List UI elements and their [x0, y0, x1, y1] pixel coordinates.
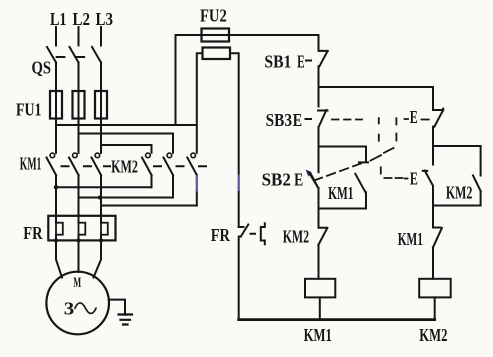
- watermark blue tint strokes: [197, 176, 239, 191]
- wire FU2 upper to SB1 branch: [229, 34, 319, 36]
- linkage vertical dash line right: [395, 118, 397, 140]
- fuse FU2 lower: [203, 48, 231, 60]
- contactor KM1 main contact 3: [95, 153, 100, 158]
- svg-text:FR: FR: [23, 223, 43, 243]
- wire bottom rail: [239, 318, 435, 321]
- svg-text:KM1: KM1: [304, 325, 332, 345]
- svg-text:E: E: [293, 110, 302, 130]
- wire FR to motor mid: [78, 240, 80, 272]
- node E horizontal: [433, 205, 481, 207]
- wire FR to motor right: [94, 240, 102, 277]
- wire phase2 below FU1: [78, 119, 80, 153]
- junction dot crossing phase3: [98, 196, 102, 200]
- wire FU2 lower right stub down control rail: [230, 53, 239, 227]
- wire KM2 output 1 to phase1: [56, 186, 152, 188]
- switch QS pole 3: [92, 47, 101, 91]
- wire FU2 lower left stub: [197, 53, 203, 125]
- FR heater 1: [56, 223, 63, 235]
- wire L1 drop: [55, 27, 57, 46]
- svg-text:KM2: KM2: [111, 156, 138, 176]
- contactor KM1 main contact 2: [73, 153, 78, 158]
- svg-text:KM2: KM2: [419, 325, 447, 345]
- svg-text:FU1: FU1: [16, 99, 41, 119]
- wire KM2 output 3 to phase3: [101, 205, 197, 207]
- interlock KM2 NC contact left branch: [318, 209, 327, 279]
- SB3 linkage dashes horizontal: [332, 119, 362, 121]
- fuse FU1 pole 3: [95, 91, 107, 119]
- switch QS pole 2: [70, 47, 79, 91]
- wire L2 drop: [78, 27, 80, 46]
- svg-text:SB1: SB1: [264, 52, 291, 72]
- FR heater 3: [101, 223, 108, 235]
- svg-text:KM1: KM1: [20, 154, 42, 174]
- contactor KM2 main contact 2: [167, 153, 172, 158]
- fuse FU2 upper: [202, 29, 230, 42]
- pushbutton SB1 NC contact: [319, 35, 328, 87]
- svg-text:FR: FR: [211, 225, 231, 245]
- motor M circle: [46, 272, 109, 335]
- svg-text:FU2: FU2: [200, 5, 227, 25]
- FR phase wire segments through box: [56, 216, 101, 241]
- svg-text:E: E: [294, 170, 303, 190]
- pushbutton SB3 NC contact right: [433, 87, 443, 146]
- pushbutton SB3 NO contact left: [318, 87, 328, 147]
- node B horizontal: [319, 146, 367, 148]
- SB3 linkage dash before right E: [405, 118, 429, 121]
- pushbutton SB2 NO contact right: [423, 146, 433, 206]
- wire FR to motor left: [56, 240, 62, 277]
- svg-text:L3: L3: [96, 9, 114, 29]
- svg-text:QS: QS: [32, 58, 52, 78]
- interlock KM1 NC contact right branch: [433, 206, 442, 279]
- svg-text:KM2: KM2: [446, 183, 473, 203]
- svg-text:E: E: [410, 107, 418, 127]
- node D horizontal: [319, 208, 367, 210]
- svg-text:E: E: [297, 52, 305, 72]
- wire phase3 below FU1: [100, 119, 102, 153]
- svg-text:KM2: KM2: [283, 226, 309, 246]
- junction dot phase1 output: [54, 185, 58, 189]
- wire tap phase2 to KM2 pole2: [79, 134, 174, 153]
- linkage diagonal dashes to KM1 aux: [371, 148, 394, 161]
- ground wire: [109, 300, 125, 315]
- pushbutton SB2 NC contact left with arrow: [310, 147, 318, 209]
- fuse FU1 pole 1: [50, 91, 62, 119]
- svg-text:E: E: [410, 169, 418, 189]
- thermal relay FR box: [48, 216, 115, 241]
- coil KM1: [305, 279, 335, 298]
- junction dots FR bottom: [54, 214, 103, 242]
- linkage vertical dash line left: [379, 118, 381, 173]
- svg-text:SB2: SB2: [262, 170, 291, 190]
- svg-text:M: M: [73, 275, 81, 291]
- FR heater 2: [79, 223, 86, 235]
- svg-text:L1: L1: [50, 9, 67, 29]
- wire KM2 output 2 to phase2: [79, 197, 174, 199]
- wire L3 drop: [100, 27, 102, 46]
- FR paddle symbol: [251, 223, 265, 244]
- coil KM2: [419, 279, 451, 298]
- fuse FU1 pole 2: [73, 91, 85, 119]
- node C horizontal: [433, 145, 481, 147]
- svg-text:SB3: SB3: [266, 110, 292, 130]
- contactor KM2 aux latch contact: [473, 146, 481, 206]
- svg-text:3: 3: [64, 298, 75, 318]
- contactor KM1 main contact 1: [50, 153, 55, 158]
- svg-text:L2: L2: [73, 9, 91, 29]
- QS linkage dashes: [57, 56, 84, 58]
- KM1-KM2 linkage dashes: [62, 165, 207, 167]
- switch QS pole 1: [47, 47, 56, 91]
- wire phase tap up to FU2: [176, 35, 202, 125]
- contactor KM2 main contact 3: [191, 153, 196, 158]
- SB2 linkage horizontal dashes: [384, 177, 402, 179]
- wire tap phase1 to KM2 pole3: [56, 125, 197, 153]
- SB2 linkage diagonal dashes: [314, 164, 361, 181]
- svg-text:KM1: KM1: [328, 183, 353, 203]
- contactor KM1 aux latch contact: [355, 147, 368, 209]
- contactor KM2 main contact 1: [146, 153, 151, 158]
- svg-text:KM1: KM1: [398, 229, 423, 249]
- ground symbol: [119, 315, 133, 325]
- node A horizontal: [319, 86, 434, 88]
- wire phase1 below FU1: [55, 119, 57, 153]
- wire tap phase3 to KM2 pole1: [101, 145, 152, 153]
